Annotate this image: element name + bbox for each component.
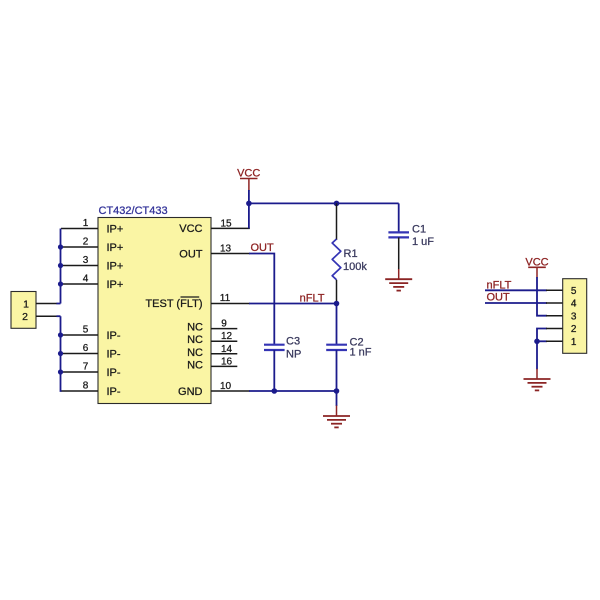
svg-text:1: 1	[571, 337, 577, 348]
power symbol VCC right pin	[536, 267, 538, 277]
svg-text:NC: NC	[187, 359, 203, 371]
wire J1 pin 1 stub	[36, 303, 57, 305]
svg-text:13: 13	[220, 244, 232, 255]
svg-text:2: 2	[571, 324, 577, 335]
svg-text:IP-: IP-	[107, 330, 121, 342]
wire pin 9 stub (NC)	[211, 328, 237, 330]
wire VCC to J2 pin 3	[537, 277, 547, 316]
svg-text:OUT: OUT	[487, 292, 511, 304]
junction IP- bus pin 7	[58, 369, 63, 374]
svg-text:NC: NC	[187, 347, 203, 359]
junction J2 pin1/pin2 ground tie	[534, 339, 540, 345]
wire J1 pin1 to IP+ bus	[57, 303, 61, 305]
wire OUT net to J2 pin 4	[485, 302, 547, 304]
svg-text:16: 16	[221, 356, 233, 367]
wire pin 3 stub	[61, 265, 98, 267]
junction IP+ bus pin 4	[58, 281, 63, 286]
ground symbol pin below C2	[336, 406, 338, 417]
svg-text:2: 2	[22, 311, 28, 323]
junction IP+ bus pin 2	[58, 244, 63, 249]
wire J1 pin2 to IP- bus	[57, 315, 61, 317]
wire pin 12 stub (NC)	[211, 340, 237, 342]
svg-text:12: 12	[221, 331, 233, 342]
wire J2 pin 4 stub	[546, 302, 563, 304]
svg-text:OUT: OUT	[179, 248, 203, 260]
svg-text:1: 1	[23, 298, 29, 310]
svg-text:NC: NC	[187, 334, 203, 346]
overline over FLT of pin 11 name	[181, 296, 200, 298]
wire pin 14 stub (NC)	[211, 353, 237, 355]
svg-text:GND: GND	[178, 386, 203, 398]
svg-text:3: 3	[571, 311, 577, 322]
svg-text:nFLT: nFLT	[300, 293, 325, 305]
wire pin 15 stub	[211, 227, 250, 229]
capacitor C2 top plate	[326, 344, 347, 346]
ground symbol pin below C1	[398, 269, 400, 279]
wire J2 pin 1 stub	[546, 340, 563, 342]
wire C2 bottom lead to GND net	[336, 350, 338, 391]
wire nFLT net (pin 11 to R1/C2)	[249, 303, 337, 305]
resistor R1 body	[332, 239, 341, 280]
wire pin 7 stub	[61, 371, 98, 373]
capacitor C1 bottom plate	[388, 236, 409, 238]
svg-text:C3: C3	[286, 336, 300, 348]
junction nFLT at R1/C2	[334, 301, 340, 307]
svg-text:15: 15	[220, 218, 232, 229]
wire C3 bottom lead to GND net	[273, 350, 275, 391]
svg-text:9: 9	[221, 319, 227, 330]
wire OUT net from pin 13	[249, 254, 274, 345]
junction VCC rail	[246, 201, 252, 207]
svg-text:1: 1	[83, 218, 89, 229]
wire C1 top lead from VCC rail	[398, 203, 400, 232]
capacitor C2 bottom plate	[326, 349, 347, 351]
wire J1 pin 2 stub	[36, 315, 57, 317]
connector J2 body (1x5)	[563, 279, 587, 354]
wire R1 top lead	[336, 203, 338, 240]
wire IP+ vertical bus	[60, 229, 62, 304]
wire pin 1 stub	[61, 228, 98, 230]
svg-text:4: 4	[571, 299, 577, 310]
wire ground drop right	[536, 341, 538, 369]
junction GND net at C2	[334, 388, 340, 394]
wire pin 16 stub (NC)	[211, 365, 237, 367]
svg-text:100k: 100k	[343, 261, 367, 273]
wire C2 top lead	[336, 304, 338, 345]
wire J2 pin 5 stub	[546, 289, 563, 291]
ground symbol below C1	[385, 279, 412, 290]
wire pin 6 stub	[61, 353, 98, 355]
wire R1 bottom lead	[336, 280, 338, 304]
wire pin 8 stub	[61, 390, 98, 392]
svg-text:1 nF: 1 nF	[350, 346, 372, 358]
wire pin 13 stub	[211, 253, 250, 255]
svg-text:6: 6	[83, 343, 89, 354]
wire pin 5 stub	[61, 334, 98, 336]
svg-text:IP-: IP-	[107, 386, 121, 398]
wire J2 pin 2 stub	[546, 328, 563, 330]
wire J2 pin 3 stub	[546, 315, 563, 317]
junction IP- bus pin 6	[58, 351, 63, 356]
capacitor C1 top plate	[388, 231, 409, 233]
power symbol VCC top pin	[248, 179, 250, 192]
svg-text:IP-: IP-	[107, 367, 121, 379]
svg-text:2: 2	[83, 237, 89, 248]
wire IP- vertical bus	[61, 316, 62, 391]
wire C1 bottom lead	[398, 237, 400, 269]
svg-text:C1: C1	[412, 224, 426, 236]
wire pin 2 stub	[61, 246, 98, 248]
svg-text:R1: R1	[344, 248, 358, 260]
svg-text:IP+: IP+	[107, 260, 124, 272]
ground symbol right connector	[524, 379, 551, 390]
junction VCC rail at R1	[334, 201, 340, 207]
wire J2 pin 1 link	[537, 340, 547, 342]
svg-text:NP: NP	[286, 348, 301, 360]
ground symbol below C2	[323, 416, 350, 427]
svg-text:IP-: IP-	[107, 348, 121, 360]
svg-text:TEST (FLT): TEST (FLT)	[145, 298, 202, 310]
svg-text:VCC: VCC	[179, 223, 202, 235]
svg-text:8: 8	[83, 381, 89, 392]
capacitor C3 top plate	[264, 344, 285, 346]
ground symbol pin right	[536, 369, 538, 379]
connector J1 body (1x2)	[11, 292, 36, 329]
wire nFLT net to J2 pin 5	[485, 289, 547, 291]
svg-text:5: 5	[83, 325, 89, 336]
svg-text:11: 11	[220, 293, 231, 304]
junction GND net at C3	[272, 388, 278, 394]
wire GND net (pin 10 to C2)	[249, 390, 337, 392]
svg-text:NC: NC	[187, 322, 203, 334]
svg-text:IP+: IP+	[107, 279, 124, 291]
svg-text:3: 3	[83, 255, 89, 266]
wire VCC vertical to pin 15	[248, 190, 250, 228]
wire pin 4 stub	[61, 283, 98, 285]
wire pin 11 stub	[211, 303, 250, 305]
svg-text:IP+: IP+	[107, 242, 124, 254]
svg-text:IP+: IP+	[107, 223, 124, 235]
power symbol VCC right bar	[528, 266, 546, 268]
wire VCC top rail	[249, 202, 399, 204]
power symbol VCC top bar	[240, 178, 258, 180]
wire pin 10 stub	[211, 390, 250, 392]
svg-text:4: 4	[83, 274, 89, 285]
svg-text:CT432/CT433: CT432/CT433	[99, 205, 168, 217]
IC U1 body CT432/CT433	[98, 218, 211, 404]
svg-text:10: 10	[220, 381, 232, 392]
capacitor C3 bottom plate	[264, 349, 285, 351]
wire GND net drop to ground	[336, 391, 338, 406]
svg-text:5: 5	[571, 286, 577, 297]
svg-text:14: 14	[221, 344, 233, 355]
junction IP- bus pin 5	[58, 332, 63, 337]
junction IP+ bus pin 3	[58, 263, 63, 268]
svg-text:OUT: OUT	[251, 242, 275, 254]
svg-text:7: 7	[83, 362, 89, 373]
svg-text:1 uF: 1 uF	[412, 236, 434, 248]
wire J2 pin 2 to ground drop	[537, 329, 547, 342]
